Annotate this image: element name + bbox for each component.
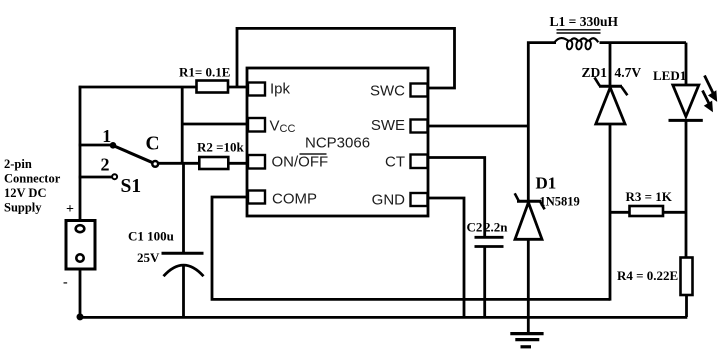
wire: bottom ground rail <box>79 316 688 319</box>
connector J1: 2-pin connector body <box>66 221 95 270</box>
node: bottom-left rail junction <box>77 313 84 320</box>
diode D1 triangle <box>515 203 542 240</box>
resistor R4 <box>681 258 693 296</box>
resistor R2 <box>199 157 228 169</box>
LED1 cathode bar <box>669 119 703 122</box>
capacitor C1 curved plate <box>164 265 204 276</box>
svg-text:LED1: LED1 <box>653 68 686 83</box>
diode D1 cathode tick right <box>540 202 544 210</box>
connector pin hole bottom <box>76 254 83 261</box>
svg-text:R3 = 1K: R3 = 1K <box>626 189 673 204</box>
wire: C2 bottom lead to ground rail <box>483 247 486 318</box>
resistor R1 <box>197 81 229 93</box>
connector pin hole top <box>76 225 85 232</box>
svg-text:R2 =10k: R2 =10k <box>197 140 245 155</box>
diode D1 cathode tick left <box>515 193 519 201</box>
wire: ZD1 anode lead down to COMP feedback wire <box>609 124 612 301</box>
wire: L1 right terminal to ZD1 and LED1 <box>600 41 687 44</box>
svg-text:-: - <box>63 275 68 290</box>
wire: LED1 cathode lead <box>685 43 688 85</box>
svg-text:C: C <box>146 134 160 155</box>
pin SWE box <box>411 120 428 133</box>
svg-text:2-pin: 2-pin <box>4 157 32 171</box>
svg-text:SWE: SWE <box>371 117 405 134</box>
capacitor C2 top plate <box>475 236 504 239</box>
wire: ZD1 cathode lead <box>609 43 612 86</box>
svg-text:C2: C2 <box>467 220 483 235</box>
switch S1 common pole circle <box>152 161 158 167</box>
pin ON/OFF box <box>248 155 265 169</box>
LED1 arrow 2 <box>703 91 711 107</box>
resistor R3 <box>630 206 664 216</box>
svg-text:COMP: COMP <box>272 191 317 208</box>
IC U1 NCP3066 body <box>247 68 428 216</box>
svg-text:1N5819: 1N5819 <box>540 195 580 209</box>
svg-text:ZD1: ZD1 <box>582 65 608 80</box>
pin VCC box <box>248 118 265 132</box>
inductor L1 coil loop 3 <box>585 40 591 50</box>
svg-text:S1: S1 <box>121 176 142 197</box>
wire: R3 branch from ZD1 line to LED line <box>610 211 686 214</box>
svg-text:ON/OFF: ON/OFF <box>272 154 329 171</box>
svg-text:D1: D1 <box>536 174 557 193</box>
pin Ipk box <box>248 83 265 96</box>
svg-text:NCP3066: NCP3066 <box>305 135 370 152</box>
wire: VCC branch <box>182 123 248 126</box>
wire: R4 bottom to ground rail <box>685 295 688 317</box>
switch S1 contact 2 circle <box>112 174 117 179</box>
wire: left +12V rail upper <box>79 86 82 221</box>
inductor L1 coil loop 2 <box>576 40 582 50</box>
wire: LED1 anode down through R3 node to R4 <box>685 121 688 258</box>
wire: SWE node up to L1 left terminal, D1 cathode line down to ground <box>528 43 556 334</box>
pin CT box <box>411 155 428 169</box>
wire: switch contact 2 stub <box>79 176 112 179</box>
svg-text:+: + <box>66 202 74 217</box>
svg-text:L1 = 330uH: L1 = 330uH <box>550 14 619 29</box>
wire: C1 bottom lead to ground rail <box>182 265 185 317</box>
svg-text:CT: CT <box>385 154 405 171</box>
zener ZD1 triangle <box>596 88 625 125</box>
svg-text:4.7V: 4.7V <box>615 65 642 80</box>
switch S1 contact 1 dot <box>110 142 117 149</box>
ground symbol <box>510 332 543 335</box>
pin SWC box <box>411 84 428 97</box>
wire: CT pin to C2 <box>427 158 485 237</box>
inductor L1 core lines <box>557 30 601 33</box>
capacitor C2 bottom plate <box>475 245 504 248</box>
LED1 arrow 1 <box>705 76 715 97</box>
zener ZD1 tick left <box>595 78 600 86</box>
pin GND box <box>411 193 428 206</box>
svg-text:R4 = 0.22E: R4 = 0.22E <box>617 268 678 283</box>
diode D1 1N5819 cathode bar <box>517 200 542 203</box>
wire: SWE pin to inductor node <box>427 125 528 128</box>
inductor L1 coil humps <box>555 38 599 42</box>
wire: SWC loop over IC top <box>237 28 455 88</box>
LED1 triangle <box>673 85 699 117</box>
svg-text:2: 2 <box>101 155 110 175</box>
wire: switch contact 1 stub <box>79 144 113 147</box>
capacitor C1 top plate <box>162 252 204 255</box>
wire: left rail below connector to ground rail <box>79 269 82 317</box>
svg-text:R1= 0.1E: R1= 0.1E <box>179 65 230 80</box>
svg-text:2.2n: 2.2n <box>484 220 508 235</box>
svg-text:Supply: Supply <box>4 201 42 215</box>
svg-text:25V: 25V <box>137 250 160 265</box>
inductor L1 coil loop 1 <box>566 40 572 50</box>
switch S1 lever <box>113 146 153 163</box>
wire: switch common to R2 to ON/OFF pin <box>157 162 248 165</box>
wire: GND pin to ground rail <box>427 198 464 317</box>
svg-text:Ipk: Ipk <box>270 81 291 98</box>
svg-text:1: 1 <box>102 126 111 146</box>
svg-text:C1 100u: C1 100u <box>128 229 174 244</box>
wire: top horizontal +12V to R1 and Ipk <box>79 86 248 89</box>
zener ZD1 tick right <box>621 87 627 96</box>
pin COMP box <box>248 191 265 204</box>
zener ZD1 cathode bar <box>599 85 622 88</box>
pin label ON/OFF overline <box>300 153 327 155</box>
svg-text:12V DC: 12V DC <box>4 186 46 200</box>
wire: vertical tap down to VCC / switch / C1 <box>182 87 183 253</box>
svg-text:GND: GND <box>372 192 406 209</box>
wire: COMP feedback loop <box>212 197 610 299</box>
svg-text:Connector: Connector <box>4 172 61 186</box>
svg-text:SWC: SWC <box>370 83 405 100</box>
